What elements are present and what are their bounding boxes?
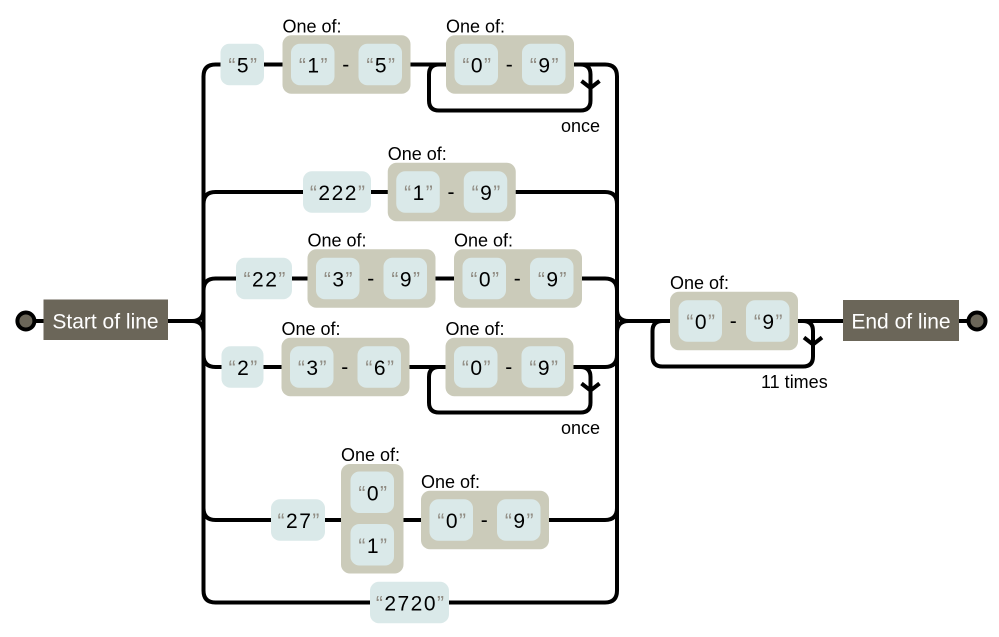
char class group "1"-"5" <box>283 16 411 94</box>
literal "5" <box>221 44 265 86</box>
svg-text:“1”: “1” <box>299 55 329 78</box>
char class group "0"-"9" final <box>670 273 798 351</box>
svg-text:“9”: “9” <box>505 510 535 533</box>
svg-text:One of:: One of: <box>446 16 505 36</box>
svg-text:“27”: “27” <box>278 510 321 533</box>
svg-text:once: once <box>561 418 600 438</box>
literal "2" <box>222 346 264 388</box>
svg-text:One of:: One of: <box>308 230 367 250</box>
left rail arc to branch 3 <box>204 279 216 291</box>
svg-text:“9”: “9” <box>754 311 784 334</box>
svg-text:“9”: “9” <box>538 269 568 292</box>
svg-text:One of:: One of: <box>454 230 513 250</box>
right rail <box>615 77 619 591</box>
wire start-circle to Start box <box>35 319 44 323</box>
svg-text:“0”: “0” <box>462 357 492 380</box>
right rail arc from branch 6 <box>605 591 617 603</box>
fork arc up <box>192 310 204 322</box>
repetition loop branch 1 once <box>429 65 591 111</box>
svg-text:One of:: One of: <box>670 273 729 293</box>
svg-text:One of:: One of: <box>282 319 341 339</box>
svg-text:“3”: “3” <box>324 269 354 292</box>
branch 2 line <box>216 190 606 194</box>
svg-text:-: - <box>341 356 350 379</box>
anchor box End of line <box>843 300 959 341</box>
branch 1 line <box>216 63 606 67</box>
arrowhead branch 4 once <box>582 384 600 391</box>
svg-text:-: - <box>448 181 457 204</box>
left rail <box>204 65 216 603</box>
svg-text:-: - <box>514 268 523 291</box>
svg-text:Start of line: Start of line <box>52 311 158 334</box>
svg-text:“0”: “0” <box>686 311 716 334</box>
right rail arc from branch 3 <box>605 279 617 291</box>
svg-text:“5”: “5” <box>228 55 258 78</box>
svg-text:One of:: One of: <box>421 472 480 492</box>
svg-text:“0”: “0” <box>437 510 467 533</box>
svg-text:-: - <box>506 54 515 77</box>
svg-text:once: once <box>561 116 600 136</box>
literal "222" <box>303 171 371 213</box>
svg-text:“9”: “9” <box>391 269 421 292</box>
svg-text:-: - <box>481 509 490 532</box>
char class group "0"-"9" branch5 <box>421 472 549 550</box>
merge arc from below <box>617 321 629 333</box>
svg-text:“1”: “1” <box>358 535 388 558</box>
svg-text:End of line: End of line <box>851 311 950 334</box>
svg-text:-: - <box>730 310 739 333</box>
svg-text:“9”: “9” <box>530 55 560 78</box>
char class group "0"-"9" branch4 <box>446 319 574 397</box>
char class group "0"/"1" vertical <box>341 445 404 574</box>
svg-text:-: - <box>342 54 351 77</box>
svg-text:One of:: One of: <box>283 16 342 36</box>
svg-text:“22”: “22” <box>244 269 287 292</box>
svg-text:“2”: “2” <box>229 357 259 380</box>
wire End box to end-circle <box>959 319 967 323</box>
literal "27" <box>271 499 325 541</box>
svg-text:One of:: One of: <box>446 319 505 339</box>
literal "2720" <box>370 582 449 624</box>
branch 6 line <box>216 601 606 605</box>
start circle <box>17 313 34 330</box>
svg-text:“1”: “1” <box>404 182 434 205</box>
merge arc from above <box>617 310 629 322</box>
arrowhead final 11 times <box>804 338 822 345</box>
char class group "3"-"9" <box>308 230 436 308</box>
literal "22" <box>236 258 292 300</box>
svg-text:“3”: “3” <box>298 357 328 380</box>
branch 5 line <box>216 518 606 522</box>
svg-text:One of:: One of: <box>341 445 400 465</box>
anchor box Start of line <box>44 300 169 341</box>
repetition loop branch 4 once <box>429 367 591 413</box>
right rail arc from branch 1 <box>605 65 617 77</box>
svg-text:“9”: “9” <box>529 357 559 380</box>
svg-text:-: - <box>367 268 376 291</box>
svg-text:-: - <box>505 356 514 379</box>
char class group "1"-"9" <box>388 144 516 222</box>
branch 3 line <box>216 277 606 281</box>
svg-text:“0”: “0” <box>462 55 492 78</box>
char class group "0"-"9" branch3 <box>454 230 582 308</box>
arrowhead branch 1 once <box>582 81 600 88</box>
svg-text:“5”: “5” <box>366 55 396 78</box>
svg-text:11 times: 11 times <box>761 372 828 392</box>
left rail arc to branch 4 <box>204 355 216 367</box>
char class group "3"-"6" <box>282 319 410 397</box>
left rail arc to branch 2 <box>204 192 216 204</box>
svg-text:“0”: “0” <box>358 482 388 505</box>
char class group "0"-"9" branch1 <box>446 16 574 94</box>
svg-text:“6”: “6” <box>365 357 395 380</box>
svg-text:“222”: “222” <box>310 182 367 205</box>
svg-text:“9”: “9” <box>472 182 502 205</box>
wire Start box to fork <box>168 319 192 323</box>
right rail arc from branch 5 <box>605 508 617 520</box>
branch 4 line <box>216 365 606 369</box>
repetition loop final 11 times <box>653 321 814 367</box>
right rail arc from branch 4 <box>605 355 617 367</box>
main line to End box <box>629 319 844 323</box>
svg-text:“0”: “0” <box>470 269 500 292</box>
svg-text:“2720”: “2720” <box>376 593 446 616</box>
end circle <box>969 313 986 330</box>
left rail arc to branch 5 <box>204 508 216 520</box>
right rail arc from branch 2 <box>605 192 617 204</box>
fork arc down <box>192 321 204 333</box>
svg-text:One of:: One of: <box>388 144 447 164</box>
